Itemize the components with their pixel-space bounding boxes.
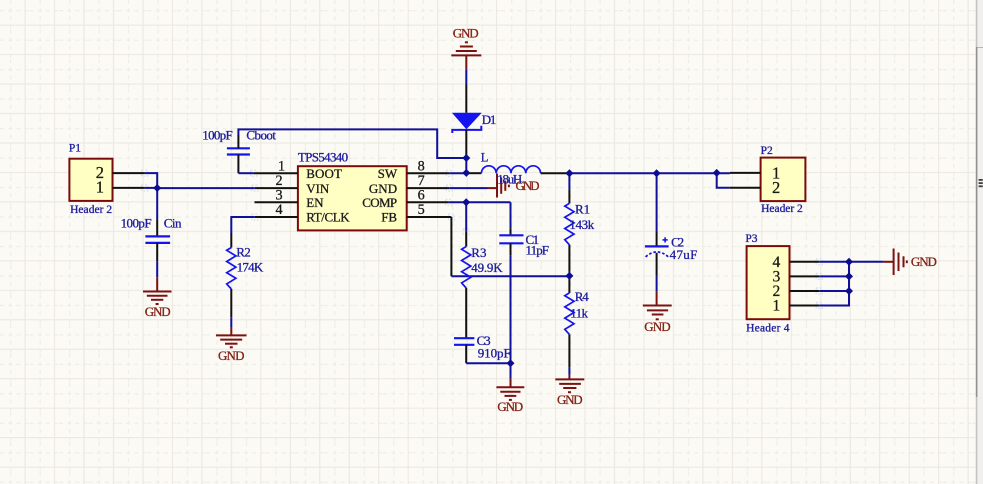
svg-text:2: 2 (772, 178, 780, 197)
node FB divider junction (565, 272, 573, 280)
svg-text:BOOT: BOOT (306, 166, 342, 181)
pin D1 anode (465, 85, 467, 113)
svg-text:GND: GND (911, 254, 937, 269)
pin 6 COMP stub (407, 201, 449, 203)
wire P3 pin2 (819, 290, 849, 292)
pin 1 of P1 (113, 187, 145, 189)
svg-text:Header 2: Header 2 (761, 203, 803, 215)
inductor L (466, 166, 569, 173)
node C2 junction (653, 169, 661, 177)
svg-text:11k: 11k (570, 306, 588, 321)
wire P3 bus to GND (849, 261, 884, 263)
svg-text:4: 4 (275, 202, 282, 218)
pin 2 VIN stub (255, 187, 298, 189)
power port GND (under Cin) (143, 277, 172, 304)
wire R2 to GND (230, 317, 232, 327)
svg-text:R4: R4 (575, 289, 590, 304)
wire Cboot top to diode node (238, 129, 466, 158)
wire diode node down to SW node (465, 158, 467, 173)
wire Cin to GND (156, 261, 158, 277)
svg-text:3: 3 (275, 187, 282, 203)
svg-text:8: 8 (418, 158, 425, 174)
svg-text:GND: GND (497, 399, 523, 414)
svg-text:100pF: 100pF (121, 215, 152, 230)
pin 3 of P3 (790, 275, 820, 277)
svg-text:GND: GND (369, 181, 397, 196)
svg-text:6: 6 (418, 187, 425, 203)
capacitor Cin (145, 220, 170, 261)
capacitor C3 (454, 338, 474, 363)
svg-text:TPS54340: TPS54340 (298, 150, 348, 165)
wire VIN node to pin 2 (157, 187, 255, 189)
wire P2 branch (717, 173, 730, 188)
power port GND (under C3/C1) (496, 379, 524, 400)
op-amp U1 TPS54340 body (298, 166, 407, 230)
node COMP junction (462, 198, 470, 206)
pin 1 of P2 (730, 172, 761, 174)
wire FB node (450, 217, 452, 276)
wire pin4 to R2 (231, 217, 255, 233)
node P3 pin4 junction (845, 258, 853, 266)
node P3 pin2 junction (845, 287, 853, 295)
power port GND (under C2) (643, 292, 672, 320)
power port GND (P3, rotated) (884, 249, 907, 276)
svg-text:GND: GND (453, 26, 479, 41)
svg-text:GND: GND (644, 319, 670, 334)
node P2 junction (713, 169, 721, 177)
svg-text:L: L (481, 151, 489, 165)
power port GND (under R4) (555, 375, 584, 392)
svg-text:174K: 174K (237, 260, 264, 275)
svg-text:Header 2: Header 2 (70, 204, 112, 216)
svg-text:VIN: VIN (306, 181, 330, 196)
resistor R3 (462, 202, 471, 338)
pin 4 of P3 (790, 261, 820, 263)
wire GND node down (510, 363, 512, 378)
wire pin7 to GND port (449, 187, 487, 189)
right panel strip (976, 0, 983, 484)
pin 7 GND stub (407, 187, 450, 189)
pin 2 of P1 (113, 172, 145, 174)
wire P3 pin1 (819, 262, 849, 306)
svg-text:P2: P2 (761, 145, 773, 157)
connector P3 body (747, 246, 790, 319)
wire VIN node down to Cin (156, 188, 158, 220)
svg-text:5: 5 (418, 202, 425, 218)
svg-text:49.9K: 49.9K (471, 260, 503, 275)
svg-text:1: 1 (278, 158, 285, 174)
node P3 pin3 junction (845, 272, 853, 280)
capacitor Cboot (227, 135, 250, 173)
svg-text:D1: D1 (482, 112, 497, 127)
svg-text:GND: GND (557, 392, 583, 407)
node C3/C1 ground junction (507, 359, 515, 367)
svg-text:GND: GND (145, 304, 171, 319)
svg-text:GND: GND (218, 348, 245, 363)
svg-text:SW: SW (378, 166, 398, 181)
svg-text:P1: P1 (69, 142, 81, 154)
svg-text:EN: EN (306, 195, 324, 210)
wire P3 pin3 (819, 275, 849, 277)
power port GND (under R2) (216, 327, 247, 347)
svg-text:FB: FB (381, 210, 397, 225)
svg-text:143k: 143k (569, 217, 594, 232)
svg-text:1: 1 (96, 178, 104, 197)
svg-text:1: 1 (773, 298, 781, 315)
pin 5 FB stub (407, 216, 452, 218)
svg-text:R2: R2 (236, 245, 251, 260)
wire GND to D1 anode (465, 70, 467, 85)
svg-text:Cin: Cin (164, 215, 182, 230)
wire P3 pin4 (819, 261, 849, 263)
svg-text:910pF: 910pF (478, 346, 511, 361)
svg-text:RT/CLK: RT/CLK (306, 210, 350, 225)
svg-text:47uF: 47uF (670, 247, 698, 262)
node diode/Cboot junction (462, 154, 470, 162)
wire C3 to GND node (466, 362, 510, 364)
wire Cboot bottom to pin1 (238, 172, 253, 174)
diode D1 (zener, pointing down) (452, 113, 482, 133)
svg-text:Header 4: Header 4 (746, 323, 790, 335)
wire COMP (449, 201, 511, 203)
resistor R1 (565, 173, 574, 276)
wire P1 pin2 to VIN node (145, 173, 158, 188)
pin 3 EN stub (255, 201, 298, 203)
wire R4 to GND (568, 367, 570, 375)
node SW junction (462, 169, 470, 177)
connector P1 body (69, 159, 112, 201)
power port GND (pin 7, rotated) (488, 174, 509, 198)
resistor R2 (227, 233, 236, 317)
wire SW to diode node (449, 172, 466, 174)
svg-text:100pF: 100pF (202, 128, 232, 143)
svg-text:R3: R3 (471, 245, 486, 260)
pin 2 of P3 (790, 290, 820, 292)
node VIN junction (153, 184, 161, 192)
pin 1 BOOT stub (254, 172, 298, 174)
pin 1 of P3 (790, 305, 820, 307)
svg-text:11pF: 11pF (526, 242, 550, 257)
wire P1 pin1 to VIN node (145, 187, 158, 189)
pin D1 cathode (465, 130, 467, 158)
connection hotspot markers (142, 170, 823, 308)
pin 4 RT/CLK stub (255, 216, 298, 218)
wire C2 to GND (656, 276, 658, 292)
power port GND (top, above D1) (451, 42, 481, 69)
wire output rail (569, 172, 730, 174)
resistor R4 (565, 276, 574, 368)
capacitor C2 (polarized) (645, 173, 669, 276)
svg-text:COMP: COMP (362, 195, 397, 210)
node output/R1 junction (565, 169, 573, 177)
svg-text:R1: R1 (575, 202, 590, 217)
pin 2 of P2 (730, 187, 761, 189)
connector P2 body (761, 158, 806, 202)
svg-text:18uH: 18uH (497, 172, 522, 187)
capacitor C1 (499, 202, 523, 363)
pin 8 SW stub (407, 172, 450, 174)
svg-text:P3: P3 (745, 233, 757, 245)
